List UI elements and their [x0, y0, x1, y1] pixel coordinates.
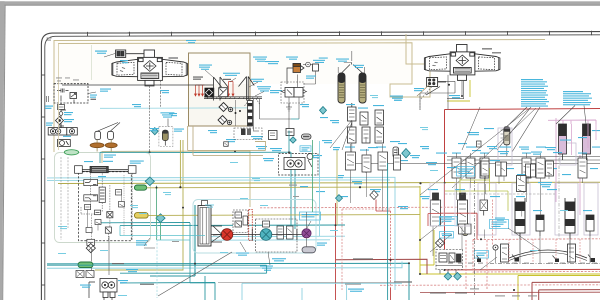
wire short links manifold [88, 195, 122, 231]
olive pilot network right [445, 168, 508, 211]
check valve D3 teal diamond [145, 177, 154, 186]
solenoid box S2 at pump P2 [426, 78, 446, 96]
cylinder CYL1 [559, 124, 567, 160]
wire filter stems [97, 140, 111, 152]
check valve D4 teal diamond [156, 214, 165, 223]
labels fan solenoid upper cyan [265, 58, 328, 65]
light blue corner bottom center [242, 283, 402, 300]
cream tint pilot group area [189, 53, 251, 126]
labels MCV mid cyan extra [420, 146, 562, 155]
filter F2 brown ellipse [105, 143, 117, 148]
fan blades [211, 226, 222, 243]
cream tint upper band [54, 40, 412, 84]
wire teal bottom drops [190, 223, 215, 283]
separator dash dot line [490, 263, 600, 265]
pump cluster bottom left PCL [89, 279, 117, 300]
valve VH3 pair [526, 164, 536, 177]
tiny actuator glyphs row [477, 258, 595, 263]
wire capsule stem [92, 236, 110, 275]
red dashed box right [473, 239, 600, 272]
teal vertical rail right-center [387, 163, 389, 300]
teal verticals bottom left [120, 276, 215, 300]
label box cyan q4b [440, 217, 458, 226]
strainer boxes bottom left [76, 271, 94, 278]
row of port numbers [448, 263, 597, 264]
label box left cyan [490, 220, 509, 229]
red branch mid [440, 213, 477, 239]
wire pilot cluster [352, 97, 379, 173]
relief valve V4 vertical [99, 187, 105, 202]
valve V2 in manifold [84, 180, 98, 186]
olive rail pair [420, 230, 434, 265]
tan group box mid left [102, 151, 250, 207]
valve V7 small [105, 227, 111, 233]
teal vertical fan [150, 205, 195, 276]
shaft pump to gearbox [272, 229, 302, 240]
tank green ellipse T1 [64, 150, 78, 155]
solenoid wires red group 2 [228, 82, 235, 97]
valve VH2 double [496, 162, 507, 176]
wire stems swing [485, 172, 550, 239]
labels bottom black [112, 258, 467, 293]
diamond D5 below manifold [86, 244, 95, 253]
maroon corner bottom right 1 [532, 282, 600, 300]
solenoid wires red group 1 [195, 85, 205, 96]
spool column SC2 [458, 193, 468, 226]
pump P2 right pump assembly [424, 45, 500, 81]
label cyan bottom center [348, 289, 364, 292]
dashed manifold drop [92, 185, 110, 239]
dashed comp box in tan area [234, 128, 262, 140]
motor GM1 purple circle [302, 229, 311, 238]
sensor YP1 yellow capsule [134, 213, 148, 219]
teal rail mid left [100, 151, 291, 153]
wire MCV drops [351, 170, 583, 215]
border tick marks top [88, 31, 592, 37]
travel valve TV1 [501, 244, 509, 262]
wires left column verticals [61, 157, 68, 240]
maroon corner bottom right 2 [539, 290, 600, 300]
motor M2 gear w dashed box [279, 154, 319, 176]
valve VB2 grey box [219, 88, 228, 97]
pale rounded group box left [55, 153, 151, 243]
light blue nested box bottom [47, 262, 402, 269]
labels MCV cyan row2 [428, 189, 592, 211]
label box cyan q4c [440, 232, 454, 239]
wire olive link accumulators [338, 51, 364, 73]
grey diamond mid [370, 191, 378, 200]
red dashed verticals pilot [466, 240, 487, 290]
valve V3 in manifold [84, 195, 98, 201]
pilot valve PV2 [360, 112, 368, 125]
pink rails extra [572, 124, 597, 155]
pilot valve PV1 [348, 103, 357, 127]
small tank box [224, 142, 229, 147]
teal motor feeds [291, 152, 295, 229]
labels accumulator A0 cyan above [160, 112, 174, 117]
breather GP2 green capsule [78, 262, 93, 268]
check diamond DP1 [436, 239, 445, 248]
wire manifold internals [81, 173, 132, 241]
reducing valve RV1 [393, 147, 399, 158]
radiator core RAD1 [198, 201, 211, 247]
small cylinder CYL6 [586, 215, 594, 236]
tiny port marks above valve box [56, 78, 79, 82]
swing anti-drift valve [480, 200, 488, 216]
manifold extra internals [85, 190, 125, 233]
wires lever rail drops [254, 99, 292, 131]
maroon box bottom center [336, 259, 427, 274]
pilot valve PV4 [348, 127, 357, 143]
tank line bottom left [58, 125, 64, 128]
red dashed box swing left edge [342, 209, 391, 290]
grey attachment line [218, 282, 394, 284]
red dashed box fan area [260, 206, 460, 209]
valve PR1 [269, 131, 278, 140]
olive main rail horizontal [58, 182, 600, 183]
pilot valve PV3 [375, 110, 384, 125]
solenoid box S1 at pump P1 [116, 50, 144, 57]
wire rail drop [242, 97, 260, 107]
wire pump P1 drains [150, 80, 161, 107]
light blue rails mid [47, 177, 395, 290]
shaft fan to pump [233, 229, 260, 241]
red vertical rail swing [335, 203, 337, 300]
small comp left of bank [477, 141, 482, 147]
teal rail left low [98, 223, 345, 226]
wire stems MCV top row [351, 144, 583, 158]
accumulator AP1 [463, 225, 469, 236]
valve V1 dashed box upper left [54, 84, 88, 104]
tiny text row bottom right [470, 288, 537, 296]
red dashed verticals right block [509, 239, 580, 263]
dashed vertical light left-center [156, 225, 158, 298]
manifold dotted column [123, 175, 125, 235]
cyan label box mid [300, 146, 311, 152]
valve above pump FP1 [263, 221, 270, 227]
red main box right top [445, 109, 600, 271]
red wire from grey diamond [376, 200, 391, 212]
pump P1 left pump assembly [112, 50, 187, 86]
pump group dashed box [256, 219, 298, 252]
filter F1 brown ellipse [90, 143, 104, 148]
labels under pump P2 cyan [390, 88, 494, 135]
small chain parts left [58, 105, 65, 116]
labels motor cyan [251, 136, 274, 161]
teal nested box bottom [47, 263, 409, 300]
tan inner vertical left [58, 44, 60, 151]
lever mast L2 [239, 77, 255, 101]
pilot valve PV5 [362, 127, 370, 143]
wire radiator to motor [211, 226, 222, 242]
gauge circle near fan solenoid [303, 62, 312, 67]
label RIGHT PUMP [482, 48, 492, 50]
desk grey left strip [0, 1, 5, 300]
relief RVx red outline [249, 210, 253, 241]
gear pump G1 [48, 128, 77, 135]
pink cylinder rails [548, 118, 596, 215]
wire pump P2 drain [448, 75, 462, 110]
labels pilot group cyan [199, 65, 271, 92]
section boundary horizontal dash [445, 193, 555, 195]
left margin small marks [46, 96, 49, 102]
check valve D7 diamond [402, 149, 411, 158]
accumulator A0 [159, 127, 173, 147]
wire green drop [157, 186, 161, 240]
labels pilot group black [193, 77, 231, 80]
tank symbol under FS2 [286, 103, 292, 111]
leader lines from listings [497, 106, 586, 153]
olive vertical rails center [420, 186, 600, 274]
spool valve SPV1 [517, 176, 527, 193]
teal diamond motor inlet [290, 137, 296, 143]
labels pilot cyan small [439, 217, 509, 248]
node J2 [359, 186, 361, 188]
labels water marks cyan [58, 198, 268, 296]
check diamond DP3 teal [454, 273, 462, 281]
valve VH1 [481, 161, 489, 181]
manifold MB1 dashed box [75, 166, 136, 241]
check diamond DL1 [219, 103, 233, 112]
accumulator A1 [338, 73, 345, 103]
teal diamond mid [336, 195, 343, 202]
wire pump1 case drain long [150, 92, 161, 152]
extra cyan labels upper area [120, 60, 236, 142]
wire grey vertical with dots [235, 100, 237, 126]
tan group box upper left [54, 34, 545, 152]
border tick marks left [41, 75, 44, 285]
lever mast L1 [214, 77, 229, 101]
cooler CAP1 grey capsule [302, 247, 316, 253]
olive corner bottom right [518, 276, 600, 300]
filter F1 body [95, 123, 120, 140]
long leader lines across bank [330, 107, 536, 195]
pale vertical upper left [91, 45, 93, 80]
label for valve V1 [90, 95, 97, 100]
label box fan cyan bordered [300, 212, 321, 220]
valve VH4 [546, 161, 554, 176]
leader lines MCV text [420, 221, 540, 270]
labels bottom left cyan [80, 269, 138, 288]
label RIGHT PUMP reposition [492, 52, 501, 54]
sensor PRND capsule [302, 134, 312, 139]
corner annotation marks [47, 38, 52, 41]
swivel circle SW1 [493, 245, 498, 250]
light blue rail upper [100, 107, 250, 109]
node on olive rail [419, 182, 421, 184]
shaft rail hatched [204, 97, 262, 99]
labels MCV cyan row [345, 140, 600, 154]
red corner mid right [428, 214, 440, 226]
group box pilot shutoff brown rect [189, 53, 251, 126]
check diamond DP2 teal [444, 273, 452, 281]
faint body boxes MCV [478, 128, 598, 235]
lavender fills behind bank [430, 183, 470, 226]
accumulator A3 small [501, 127, 510, 156]
striped valve column right [248, 101, 253, 127]
spool column SC1 [431, 193, 441, 226]
teal line fan out [120, 226, 205, 240]
travel valve TV2 [568, 244, 576, 262]
wire fan valve drops [289, 71, 316, 131]
dashed box around FS2 [281, 82, 304, 103]
red rail bottom right [445, 268, 600, 271]
olive stub near pump2 [447, 80, 470, 101]
labels fan solenoid cyan [253, 57, 316, 94]
check valve D1 diamond [56, 117, 64, 125]
small cylinder CYL5 [536, 215, 544, 236]
cyan text block right listing 1 [521, 79, 549, 107]
red dashed rail bottom [380, 284, 600, 287]
labels top pump P1 cyan [95, 40, 196, 92]
cylinder CYL2 [583, 124, 591, 160]
valve V5 small [95, 210, 101, 215]
desk grey top bar [0, 1, 600, 5]
water marks extra cyan [163, 95, 568, 251]
main control valve rails [345, 157, 600, 164]
wire purple drop [306, 212, 308, 247]
section boundary dashdot vertical [474, 158, 476, 295]
fan solenoid valve FS1 [287, 64, 319, 85]
check diamond DL2 [218, 116, 232, 125]
wire accumulator stems [342, 63, 363, 74]
leader lines Q1 [88, 54, 264, 97]
node bottom [513, 289, 515, 291]
valve FS2 with springs [282, 88, 307, 98]
wire olive capsule links [147, 140, 420, 215]
red dashed vertical swing [491, 200, 493, 245]
valves right of pump FP1 [277, 226, 293, 239]
label cyan bottom center2 [272, 258, 286, 261]
pilot valve PV6 [375, 127, 384, 143]
labels mid-band cyan additions [300, 181, 430, 209]
wire swivel stems [496, 236, 591, 263]
labels chain [45, 106, 74, 123]
light blue rail fan [205, 236, 345, 240]
teal upper link [100, 152, 150, 163]
wire fan valve link teal [289, 119, 299, 153]
valve V6 small [107, 212, 113, 218]
orifice O1 [87, 239, 95, 245]
rotary manifold arc [509, 250, 587, 258]
labels accumulators cyan [336, 59, 364, 69]
labels mid right cyan [270, 147, 344, 178]
label box cyan q4a [457, 167, 475, 177]
accumulator A2 [359, 73, 366, 103]
glyph stems [477, 255, 591, 259]
leader lines Q3 [144, 221, 311, 265]
check valve D2 teal diamond [151, 128, 158, 135]
fan motor FM1 red circle [221, 229, 233, 241]
sensor GP1 green capsule [134, 185, 146, 190]
red vertical rail center [390, 211, 392, 288]
tan nested corners mid [188, 126, 266, 155]
labels manifold cyan [46, 123, 184, 246]
green vertical mid [311, 140, 313, 212]
olive vertical mid [336, 150, 338, 225]
label box pilot cyan [475, 251, 489, 259]
valve PR2 small [286, 129, 294, 136]
pilot supply rail [62, 84, 213, 86]
pale rounded group box fan [193, 200, 316, 254]
valve block VB3 [459, 224, 472, 234]
diagonal hose line bottom left [158, 252, 232, 296]
fan motor valve block FV1 [233, 210, 248, 233]
wire valve chain [61, 103, 66, 128]
pilot control cluster box [436, 250, 463, 274]
check valve D6 diamond [320, 107, 327, 115]
dashed drop from S2 [420, 87, 432, 111]
labels fan circuit cyan [236, 243, 327, 271]
boom cylinder CYL4 [565, 198, 575, 239]
maroon rail bottom [420, 291, 600, 293]
boom cylinder CYL3 [515, 198, 525, 239]
cyan text block right listing 2 [563, 91, 592, 105]
labels pilot cluster cyan [320, 96, 408, 162]
labels cyan swing area [495, 182, 552, 221]
pump FP1 teal circle [260, 229, 272, 241]
labels scattered mid cyan [256, 104, 600, 175]
light blue vertical mid [319, 141, 321, 236]
wire A0 stem [167, 119, 169, 127]
node J1 [179, 186, 181, 188]
teal U bottom center [47, 265, 267, 273]
pressure valves under pump P2 [420, 80, 464, 110]
label LEFT PUMP [169, 57, 179, 59]
wire stems bank extra [351, 183, 571, 256]
olive vertical rail left [95, 140, 183, 270]
MCV valve row top: spool valves [346, 152, 588, 178]
solenoid block SB1 [205, 88, 215, 98]
motor M1 small [58, 140, 71, 147]
section boundary dashdot vertical 2 [558, 158, 560, 240]
small grey tick marks [172, 185, 299, 243]
